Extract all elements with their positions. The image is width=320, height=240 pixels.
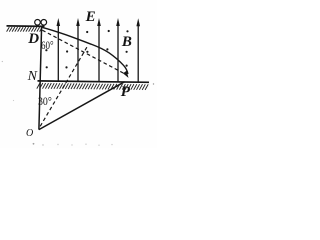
- dashed line from O at 30 degrees: [40, 47, 87, 126]
- label P: [121, 84, 130, 101]
- label N: [28, 69, 37, 85]
- wire D-N-O vertical: [39, 26, 42, 129]
- scan speckles bottom: [2, 61, 155, 146]
- label 30 deg: [38, 94, 52, 109]
- E field arrow 5: [136, 18, 140, 82]
- field dot: [86, 31, 88, 33]
- field dot: [106, 48, 108, 50]
- field dot: [66, 50, 68, 52]
- trajectory curve D to P: [42, 27, 128, 74]
- field dot: [86, 51, 88, 53]
- field dot: [46, 66, 48, 68]
- E field arrow 4: [116, 18, 120, 82]
- field dot: [126, 65, 128, 67]
- ceiling hatch: [7, 27, 43, 32]
- E field arrow 3: [97, 18, 101, 82]
- E field arrow 2: [76, 18, 80, 81]
- ground hatch: [37, 83, 148, 90]
- field dot: [108, 30, 110, 32]
- label D: [28, 31, 39, 48]
- trajectory arrowhead at P: [123, 71, 129, 78]
- field dot: [126, 30, 128, 32]
- ceiling line: [7, 25, 45, 28]
- label E: [86, 9, 96, 26]
- E field arrow 1: [57, 18, 61, 81]
- field dot: [126, 51, 128, 53]
- pulley circle right: [41, 20, 47, 26]
- label 60 deg: [41, 38, 54, 53]
- field dot: [65, 66, 67, 68]
- label B: [122, 34, 132, 51]
- field dot: [45, 49, 47, 51]
- label O: [26, 128, 33, 139]
- incline line O-P: [39, 82, 125, 130]
- pulley circle left: [35, 20, 41, 26]
- dashed chord D-P 60 degrees: [42, 30, 127, 75]
- ground line N-P: [38, 81, 150, 82]
